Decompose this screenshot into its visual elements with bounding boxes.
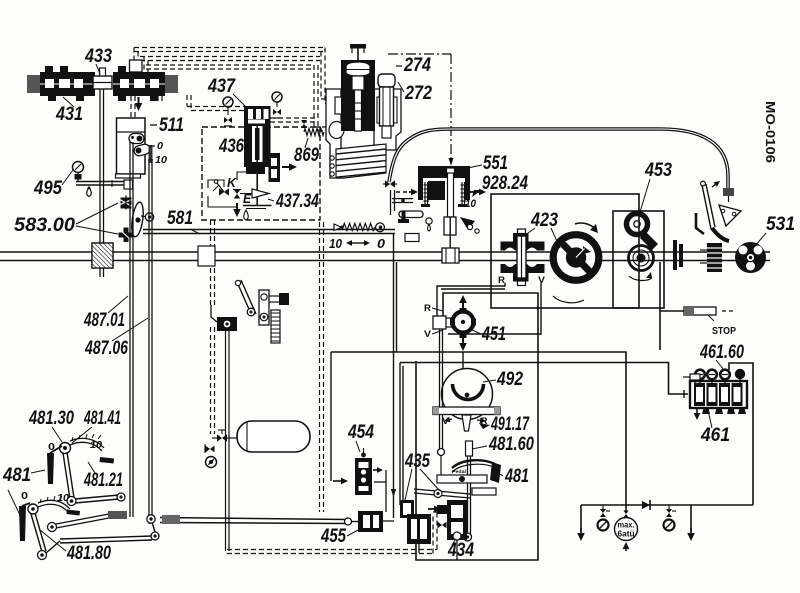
component long control rod to valve 455	[160, 518, 348, 520]
svg-text:10: 10	[90, 440, 102, 451]
wire bundle left risers into manifold	[133, 48, 135, 61]
svg-text:V: V	[442, 416, 449, 426]
node white port on top of manifold	[130, 60, 143, 72]
component brake valve 435	[400, 500, 414, 518]
svg-text:10: 10	[57, 493, 69, 504]
svg-text:481.21: 481.21	[83, 470, 123, 491]
component valve 436 lower body	[246, 162, 265, 174]
component governor linkage right	[460, 217, 475, 230]
wire solid pipe from linkage 321 down to bottom dashed run	[225, 331, 227, 551]
component shut-off valve 455	[358, 511, 383, 532]
component drain funnel 491.17	[462, 415, 471, 431]
component pressure regulator 454	[355, 458, 372, 495]
wire arrow out of governor	[470, 191, 479, 193]
wire arrows V and R at drum	[450, 418, 452, 421]
svg-text:K: K	[227, 175, 238, 190]
component gauge with valve left	[600, 509, 606, 517]
svg-text:454: 454	[347, 422, 374, 443]
component brake unit / brake valve manifold 433 right	[113, 72, 165, 96]
wire horizontal run to bottom-right piping (upper)	[331, 352, 626, 505]
svg-text:481: 481	[2, 465, 31, 486]
node dashed box around valve group 437.34	[202, 127, 320, 220]
component trailer brake valve 434	[447, 500, 467, 540]
component pedal pad 481 (black)	[490, 462, 501, 483]
svg-text:511: 511	[159, 115, 184, 136]
component driven wheel in frame	[629, 246, 654, 271]
wire dashed pipe from box 437.34 down left side	[210, 220, 212, 305]
component unloader valve 437 main body	[244, 106, 271, 167]
component gear rack	[271, 310, 280, 343]
svg-text:461: 461	[700, 425, 730, 446]
svg-text:481.41: 481.41	[83, 408, 121, 429]
svg-text:max.: max.	[618, 521, 635, 530]
svg-text:481: 481	[504, 466, 529, 487]
component lever arm lower	[31, 514, 42, 552]
svg-text:10: 10	[465, 198, 477, 210]
wire arrow outlet right	[690, 528, 692, 533]
component flywheel / transmission brake	[551, 233, 601, 283]
svg-text:451: 451	[481, 324, 506, 345]
node frame around gearbox 423	[491, 194, 639, 308]
wire control rod from valve 451 down to pedal linkage	[439, 329, 441, 449]
wire curved hand-brake cable	[389, 129, 728, 189]
wire dashed pipe manifold to valve 437	[187, 106, 246, 108]
wire dashed pipe right of box 437.34 down to valve 455	[319, 222, 321, 512]
wire spring and arrows 10-0 on rod 581	[334, 224, 342, 231]
wire vertical from shaft to stop-light switch	[659, 262, 661, 350]
component four-circuit protection manifold 461	[690, 381, 747, 408]
component lubricator bar	[76, 181, 131, 183]
label 0 / 10 at cylinder	[150, 145, 155, 147]
svg-text:435: 435	[404, 451, 430, 472]
label 511	[150, 124, 157, 126]
component hand lever black lower 481	[19, 506, 26, 541]
wire arrow up into circle	[625, 549, 627, 551]
component link to rods upper	[75, 495, 119, 499]
component compressor T-handle	[357, 48, 359, 60]
wire bottom distribution pipe	[581, 504, 753, 506]
component brake cylinder 511	[117, 118, 146, 174]
component stop light switch	[684, 307, 716, 315]
node center linkage cross 433	[93, 76, 112, 89]
svg-text:R: R	[498, 275, 506, 285]
svg-text:928.24: 928.24	[482, 173, 528, 194]
svg-text:487.01: 487.01	[83, 310, 125, 331]
component linkage plate	[437, 475, 487, 483]
component cable end fitting	[723, 188, 734, 196]
component sleeve on shaft left	[198, 246, 215, 266]
component manifold feet	[702, 408, 710, 414]
component fitting at end of rod 581	[405, 234, 419, 242]
svg-text:869: 869	[294, 145, 319, 166]
component pressure gauge 495	[73, 162, 84, 173]
wire vertical pipe from rod 581 down to valve 435	[393, 233, 395, 518]
wire arrow out of 454	[373, 469, 377, 471]
component roller links of 511	[129, 134, 144, 144]
svg-text:481.30: 481.30	[28, 408, 74, 429]
svg-text:436: 436	[218, 136, 244, 157]
wire bundle right drops toward engine	[313, 65, 315, 127]
label 481 lower leader	[8, 490, 20, 515]
component rod 481.60	[466, 441, 473, 456]
component air reservoir tank	[237, 421, 310, 452]
wire arrow into governor left	[396, 191, 409, 193]
node frame around speedometer drive 453	[613, 211, 664, 308]
svg-text:Pedal: Pedal	[452, 469, 466, 474]
component gauges on manifold	[695, 370, 705, 380]
svg-text:481.60: 481.60	[488, 434, 534, 455]
svg-text:531: 531	[766, 214, 795, 235]
node frame around control valves 451/492	[416, 293, 538, 560]
svg-text:583.00: 583.00	[14, 215, 75, 236]
component drain valve E	[234, 190, 241, 199]
component gauge with valve right	[666, 509, 672, 517]
component drain valve K	[219, 188, 229, 196]
label 274	[396, 65, 402, 67]
component lever arm upper	[63, 453, 70, 499]
wire arrow outlet below manifold	[138, 97, 140, 103]
component governor drive bracket on shaft	[444, 217, 456, 235]
component drain valve under tank line	[206, 446, 215, 453]
wire brake rod 487.06	[148, 161, 150, 524]
component gauge on 437 right	[272, 92, 282, 102]
component intake ports	[330, 156, 334, 160]
component tank pressure gauge	[206, 457, 217, 468]
svg-text:10: 10	[155, 155, 167, 166]
wire arrow into 434	[428, 508, 434, 510]
component check valve on pipe	[642, 501, 650, 509]
component air compressor (black block with carburetor)	[341, 60, 375, 131]
svg-text:0: 0	[48, 442, 56, 453]
wire dashed drop from manifold bottom	[157, 96, 159, 101]
svg-text:431: 431	[55, 104, 83, 125]
wire drain arrow down	[236, 203, 238, 209]
svg-text:R: R	[424, 303, 432, 313]
svg-text:455: 455	[320, 526, 346, 547]
component engine block outline right part	[374, 89, 401, 150]
component governor cut-in circle max 6 atu	[623, 511, 628, 518]
component bracket pipe left of governor	[390, 190, 392, 215]
svg-text:V: V	[424, 329, 431, 339]
wire arrow outlet left	[580, 528, 582, 533]
svg-text:0: 0	[157, 141, 163, 152]
wire brake rod 487.01	[129, 142, 131, 517]
component governor 551 black block	[418, 166, 470, 200]
svg-text:R: R	[481, 416, 489, 426]
component gauge on 437 left	[223, 97, 233, 107]
svg-text:433: 433	[84, 46, 112, 67]
wire branch down to regulator 454	[330, 352, 332, 481]
component engine block outline left part	[326, 89, 344, 178]
wire dash-dot line near air filter (274)	[388, 53, 451, 55]
wire vertical brake rod 433	[99, 89, 101, 243]
component brake unit 431 left	[40, 72, 95, 96]
component oiler drop	[87, 187, 92, 197]
component gearbox coupling 423	[518, 229, 526, 234]
wire control rod 581	[143, 229, 395, 231]
component valve 583.00 upper (hatched block)	[121, 198, 132, 209]
component ribbed coupling 531	[707, 243, 722, 272]
wire horizontal run to pressure manifold 461 (lower)	[400, 363, 688, 395]
wire right side feed line down	[729, 363, 753, 505]
svg-text:434: 434	[447, 540, 474, 561]
component oiler under governor	[426, 218, 432, 224]
component tank valve	[217, 434, 227, 442]
component mounting plate	[433, 407, 500, 415]
component quadrant teeth upper	[72, 434, 101, 441]
svg-text:581: 581	[167, 208, 193, 229]
wire dashed drop to brake cylinder 511	[130, 96, 132, 117]
component air filter 272	[378, 74, 395, 87]
svg-text:492: 492	[496, 369, 523, 390]
component spring 869	[304, 129, 324, 136]
component brake drum 492	[442, 369, 493, 420]
wire arrow below manifold	[696, 408, 698, 413]
svg-text:0: 0	[377, 236, 386, 251]
component lower quadrant lever	[28, 504, 38, 514]
svg-text:10: 10	[329, 236, 343, 251]
svg-text:0: 0	[21, 491, 29, 502]
component valve 583.00 lower (cross)	[124, 228, 129, 243]
wire arrow outlet of 436	[282, 166, 289, 168]
component drain funnel of 437	[252, 189, 269, 198]
component pedal arc	[452, 460, 495, 468]
component shaft bearing blocks	[673, 240, 677, 270]
component quadrant teeth lower	[40, 496, 69, 503]
component outlet attachment	[269, 153, 281, 182]
component universal joint flange 531	[735, 242, 766, 273]
wire arrow up from 451	[462, 303, 464, 310]
svg-text:272: 272	[404, 83, 432, 104]
component hand lever black 481	[47, 453, 54, 484]
svg-text:STOP: STOP	[712, 326, 736, 337]
svg-text:437: 437	[207, 76, 236, 97]
component link rod to valves	[414, 489, 470, 494]
component shaft coupling (hatched)	[92, 243, 113, 268]
component trailer control valve 451	[453, 312, 474, 333]
wire dashed bottom run from air tank to valve 434	[227, 549, 437, 551]
component bleed fitting top left	[689, 377, 695, 383]
svg-text:6atü: 6atü	[618, 530, 635, 539]
svg-text:551: 551	[483, 153, 508, 174]
component governor center rod	[448, 172, 454, 217]
wire arrow down from 451	[462, 335, 464, 343]
component hand brake lever	[702, 185, 711, 229]
component links lower 481.80	[46, 541, 60, 553]
svg-text:495: 495	[33, 178, 62, 199]
svg-text:453: 453	[644, 160, 672, 181]
wire main drive shaft	[0, 251, 770, 253]
wire small arrow at lever top	[712, 185, 715, 187]
component cooling fins	[336, 144, 386, 178]
wire dash-dot arrow into governor top	[449, 158, 454, 166]
svg-text:491.17: 491.17	[490, 414, 530, 435]
component piston rod (dark) from 511	[149, 145, 153, 163]
component speedometer drive 453	[627, 214, 648, 235]
wire dashed pipe bundle top (3 pipes from brake valve to engine)	[134, 47, 325, 49]
svg-text:274: 274	[403, 55, 431, 76]
svg-text:E: E	[243, 191, 251, 206]
component governor springs	[424, 182, 426, 204]
svg-text:MO-0106: MO-0106	[763, 101, 778, 163]
component lever link on rod 581	[130, 201, 145, 237]
svg-text:437.34: 437.34	[275, 191, 319, 212]
component upper quadrant lever 481.30/481.41	[60, 443, 71, 454]
svg-text:481.80: 481.80	[66, 543, 111, 564]
wire pipes R and V from gearbox 423 to valve 451	[437, 283, 505, 316]
svg-text:487.06: 487.06	[84, 338, 128, 359]
svg-text:461.60: 461.60	[699, 342, 744, 363]
wire rotation arrow over flywheel	[575, 223, 597, 231]
component linkage 321	[237, 282, 252, 316]
component bellcrank at rods	[147, 515, 155, 523]
component pipe and valve left of governor	[385, 180, 395, 188]
svg-text:V: V	[538, 275, 545, 285]
